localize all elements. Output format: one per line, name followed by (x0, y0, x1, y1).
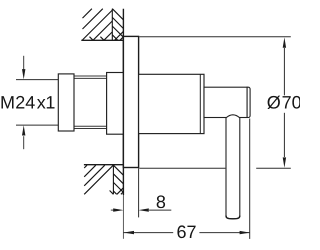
thread lines of valve tail (74, 76, 107, 129)
svg-text:Ø: Ø (267, 92, 281, 112)
nipple (tail piece) (58, 74, 74, 131)
node M24 thread extension lines (16, 80, 58, 126)
handle neck cylinder (204, 87, 247, 117)
svg-text:1: 1 (45, 92, 55, 112)
wire wall surface line (122, 9, 124, 239)
M24 bottom arrow (23, 136, 25, 149)
label dia 70 (267, 92, 302, 112)
body section at wall (107, 73, 124, 135)
valve head block (139, 74, 204, 133)
svg-text:70: 70 (282, 92, 300, 112)
8 dimension (138, 168, 140, 217)
top wall hatch (82, 9, 123, 41)
svg-text:67: 67 (177, 222, 197, 242)
svg-text:8: 8 (156, 192, 166, 212)
M24 top arrow (23, 56, 25, 71)
dia70 bottom extension line (139, 167, 225, 169)
svg-text:24: 24 (15, 92, 35, 112)
handle end cap (247, 87, 250, 117)
svg-text:M: M (0, 92, 15, 112)
bottom wall hatch (84, 164, 124, 166)
escutcheon flange (123, 36, 138, 167)
67 right extension line from cap (249, 119, 251, 239)
lever handle (226, 115, 240, 219)
dia70 dimension line with arrows (283, 48, 285, 95)
dia70 top extension line (139, 36, 290, 38)
67 dimension line (123, 232, 173, 234)
label M 24 x 1 (0, 92, 55, 112)
